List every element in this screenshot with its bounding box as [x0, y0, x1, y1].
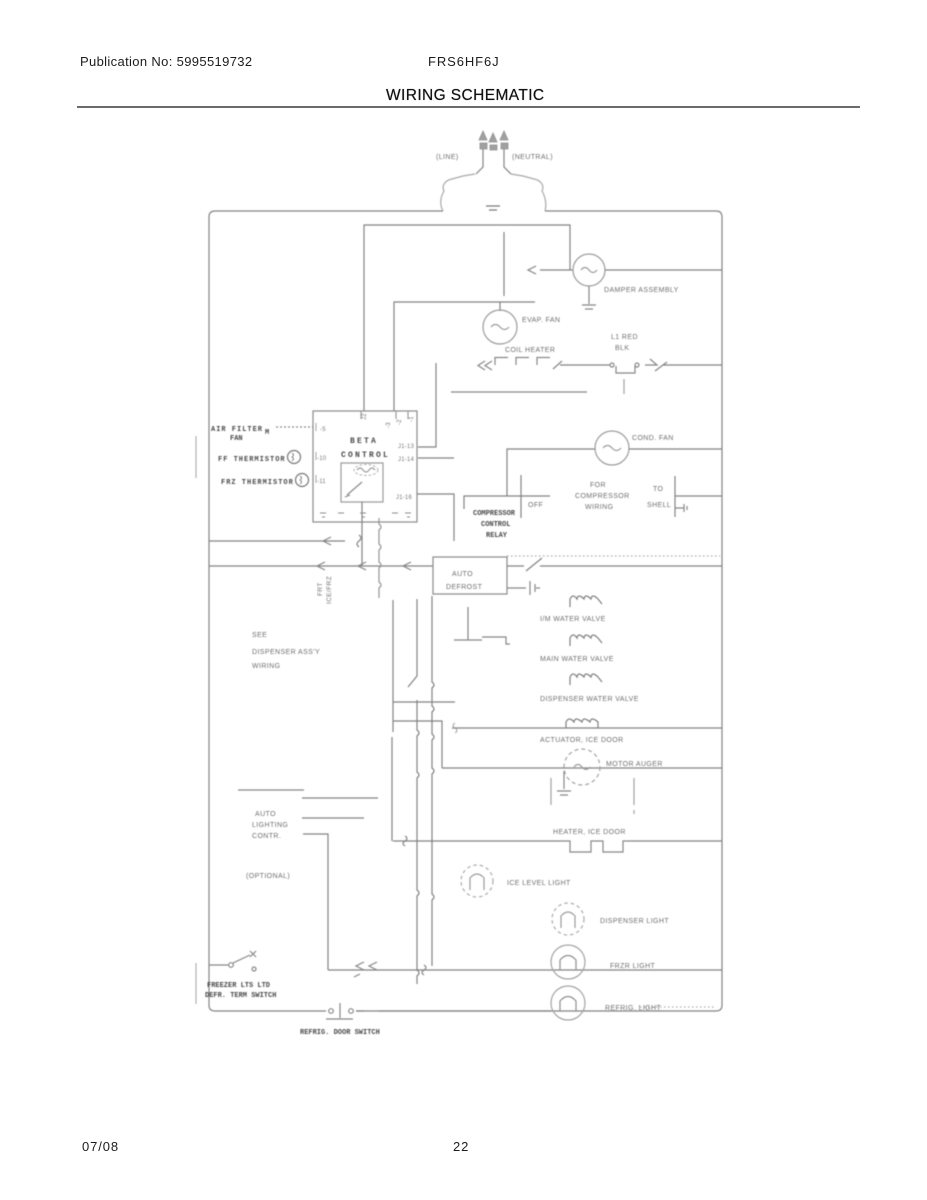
wire lone segment: [451, 391, 587, 393]
outer cabinet wiring box: [209, 211, 722, 1011]
FF thermistor symbol: [288, 451, 301, 464]
beta top pin J2 marks: [361, 411, 408, 419]
svg-text:RELAY: RELAY: [486, 532, 508, 540]
beta relay coil: [354, 465, 378, 476]
wire auger motor line: [442, 767, 722, 769]
wire J1-16: [417, 494, 454, 541]
freezer light lamp: [551, 945, 585, 979]
wire branch y702: [393, 701, 455, 703]
svg-text:REFRIG. LIGHT: REFRIG. LIGHT: [605, 1005, 661, 1012]
harness vertical A: [392, 600, 393, 841]
svg-text:CONTROL: CONTROL: [481, 521, 510, 529]
power plug body: [441, 174, 546, 211]
svg-text:CONTROL: CONTROL: [341, 451, 390, 460]
svg-text:COMPRESSOR: COMPRESSOR: [473, 510, 516, 518]
auto lighting control leader line1: [238, 789, 304, 791]
freezer lts limit switch: [209, 955, 250, 965]
left margin tick lower: [195, 963, 197, 1004]
svg-text:FF THERMISTOR: FF THERMISTOR: [218, 456, 286, 464]
heater connector arrows: [478, 361, 492, 370]
air filter fan dotted lead: [276, 426, 313, 428]
BETA control board box: [313, 411, 417, 522]
svg-text:DEFROST: DEFROST: [446, 584, 483, 591]
auger motor circle: [564, 749, 600, 785]
header publication no: [80, 54, 252, 69]
svg-text:REFRIG. DOOR SWITCH: REFRIG. DOOR SWITCH: [300, 1029, 380, 1037]
svg-text:AUTO: AUTO: [452, 571, 473, 578]
wire neutral drop: [503, 232, 505, 296]
plug prong NEUTRAL blade: [504, 149, 511, 174]
pin labels: [317, 413, 415, 501]
svg-text:BLK: BLK: [615, 345, 629, 352]
wire heater line to right bus: [632, 840, 722, 842]
auto lighting control line2: [302, 797, 378, 799]
svg-text:-10: -10: [317, 456, 327, 462]
heater ice door element: [560, 841, 632, 852]
freezer line connector hook: [422, 965, 426, 975]
main water valve coil: [570, 635, 602, 646]
beta left pin ticks: [315, 423, 317, 483]
auto lighting control line4 corner: [303, 834, 328, 970]
refrig light lamp: [551, 986, 585, 1020]
title WIRING SCHEMATIC: [386, 87, 545, 105]
plug prong LINE blade: [476, 149, 483, 174]
connector hook on upper branch: [357, 535, 361, 547]
svg-text:J2: J2: [362, 413, 368, 420]
svg-text:ACTUATOR, ICE DOOR: ACTUATOR, ICE DOOR: [540, 737, 624, 744]
svg-text:MOTOR AUGER: MOTOR AUGER: [606, 761, 663, 768]
dispenser light lamp: [552, 903, 584, 935]
wire stub below defrost: [623, 379, 625, 394]
ice maker water valve coil: [570, 596, 602, 607]
wire defrost line: [560, 364, 610, 366]
svg-text:COIL HEATER: COIL HEATER: [505, 347, 555, 354]
svg-text:HEATER, ICE DOOR: HEATER, ICE DOOR: [553, 829, 626, 836]
svg-text:CONTR.: CONTR.: [252, 833, 281, 840]
wire cond fan to right bus: [629, 448, 722, 450]
svg-text:J1-13: J1-13: [398, 444, 414, 450]
svg-text:(OPTIONAL): (OPTIONAL): [246, 873, 290, 880]
svg-text:L1 RED: L1 RED: [611, 334, 638, 341]
relay drop wire: [361, 522, 363, 566]
condenser fan motor circle: [595, 431, 629, 465]
svg-text:(LINE): (LINE): [436, 154, 459, 161]
svg-text:FREEZER LTS LTD: FREEZER LTS LTD: [207, 982, 270, 990]
FRZ thermistor symbol: [296, 474, 309, 487]
header model: [428, 54, 500, 69]
connector hook on heater line: [403, 836, 407, 846]
wire valve2 branch: [454, 637, 510, 644]
actuator coil: [566, 719, 598, 728]
beta relay blade: [345, 482, 362, 497]
compressor relay contact bar: [520, 475, 522, 518]
svg-text:ICE LEVEL LIGHT: ICE LEVEL LIGHT: [507, 880, 571, 887]
title rule: [77, 106, 860, 108]
defrost thermostat: [610, 363, 614, 367]
wire J1-14 stub: [418, 457, 454, 459]
auto lighting control line3: [302, 817, 364, 819]
beta relay pin drop: [361, 502, 363, 522]
dispenser water valve coil: [570, 674, 602, 685]
wire damper feed with connector arrow: [528, 266, 573, 274]
svg-text:FRT: FRT: [317, 582, 324, 596]
wire heater ice door line: [393, 840, 560, 842]
compressor control relay frame: [464, 496, 550, 509]
wire damper to right bus: [605, 269, 722, 271]
svg-text:AIR FILTER: AIR FILTER: [211, 426, 263, 434]
wire defrost out with switch: [507, 558, 722, 571]
svg-text:J1-14: J1-14: [398, 457, 414, 463]
svg-text:BETA: BETA: [350, 437, 378, 446]
compressor shell ground riser: [674, 476, 676, 517]
label air filter fan: [205, 426, 516, 1037]
auger bracket left: [550, 778, 552, 805]
svg-text:MAIN WATER VALVE: MAIN WATER VALVE: [540, 656, 614, 663]
svg-text:I/M WATER VALVE: I/M WATER VALVE: [540, 616, 606, 623]
footer page number: [453, 1139, 469, 1154]
wire J1-13 riser: [418, 363, 436, 447]
footer date: [82, 1139, 119, 1154]
connector harness squiggle column: [379, 518, 381, 598]
svg-text:SEE: SEE: [252, 632, 267, 639]
freezer line connector arrows: [354, 962, 377, 977]
svg-text:COMPRESSOR: COMPRESSOR: [575, 493, 630, 500]
harness vertical B: [408, 599, 419, 984]
svg-text:-11: -11: [317, 479, 326, 485]
svg-text:DISPENSER LIGHT: DISPENSER LIGHT: [600, 918, 669, 925]
svg-text:EVAP. FAN: EVAP. FAN: [522, 317, 560, 324]
beta relay box: [341, 463, 383, 502]
svg-text:FRZ THERMISTOR: FRZ THERMISTOR: [221, 479, 294, 487]
wire door switch to refrig lamp: [356, 1010, 551, 1012]
wire actuator ice door line: [452, 727, 722, 729]
wire freezer light line: [328, 969, 722, 971]
connector arrow on upper branch: [323, 537, 331, 545]
inner loop wire top: [364, 225, 570, 411]
svg-text:J1-16: J1-16: [396, 495, 412, 501]
beta bottom pin marks: [320, 513, 411, 517]
wire cond fan feed: [507, 449, 595, 496]
arrows on main feed: [317, 562, 411, 570]
svg-text:WIRING: WIRING: [585, 504, 613, 511]
svg-text:WIRING: WIRING: [252, 663, 280, 670]
svg-text:OFF: OFF: [528, 502, 543, 509]
svg-text:COND. FAN: COND. FAN: [632, 435, 674, 442]
wire defrost to right bus: [663, 364, 722, 366]
svg-text:DAMPER ASSEMBLY: DAMPER ASSEMBLY: [604, 287, 679, 294]
harness vertical C: [432, 596, 434, 966]
wire valve2 branch riser: [467, 607, 469, 640]
svg-text:TO: TO: [653, 486, 664, 493]
wire upper left branch: [209, 540, 345, 542]
refrig door switch: [329, 1009, 334, 1014]
auger ground: [557, 771, 571, 795]
refrig light dotted leader: [640, 1006, 716, 1008]
evap fan lead: [499, 302, 501, 311]
svg-text:FRZR LIGHT: FRZR LIGHT: [610, 963, 656, 970]
dotted defrost timer line: [507, 555, 720, 557]
svg-text:DISPENSER WATER VALVE: DISPENSER WATER VALVE: [540, 696, 639, 703]
svg-text:DEFR. TERM SWITCH: DEFR. TERM SWITCH: [205, 992, 276, 1000]
svg-text:M: M: [265, 429, 269, 437]
plug ground mark: [486, 206, 500, 210]
svg-text:LIGHTING: LIGHTING: [252, 822, 288, 829]
wire evap branch: [394, 302, 535, 411]
evap fan motor circle: [483, 310, 517, 344]
left margin tick upper: [195, 436, 197, 478]
plug prong center ground blade: [489, 133, 497, 150]
svg-text:ICE/FRZ: ICE/FRZ: [326, 576, 333, 604]
wire compressor line to right bus: [675, 495, 722, 497]
defrost heater element: [495, 358, 562, 370]
ice level light lamp: [461, 865, 493, 897]
svg-text:-5: -5: [320, 427, 326, 433]
svg-text:SHELL: SHELL: [647, 502, 671, 509]
svg-text:-3: -3: [386, 422, 392, 428]
wire branch to auger: [393, 721, 442, 768]
compressor shell ground symbol: [675, 504, 687, 512]
svg-text:-1: -1: [409, 416, 415, 422]
svg-text:AUTO: AUTO: [255, 811, 276, 818]
defrost cam capacitor: [507, 581, 540, 595]
svg-text:DISPENSER ASS'Y: DISPENSER ASS'Y: [252, 649, 320, 656]
auger bracket right: [633, 778, 635, 814]
auto defrost box: [433, 557, 507, 594]
freezer switch x mark: [250, 951, 256, 957]
damper assembly motor circle: [573, 254, 605, 286]
svg-text:-2: -2: [397, 419, 403, 425]
svg-text:FAN: FAN: [230, 435, 243, 443]
svg-text:FOR: FOR: [590, 482, 606, 489]
damper ground: [582, 286, 596, 309]
main neutral feed line: [209, 565, 433, 567]
svg-text:(NEUTRAL): (NEUTRAL): [512, 154, 553, 161]
defrost line connector arrow: [645, 359, 667, 371]
